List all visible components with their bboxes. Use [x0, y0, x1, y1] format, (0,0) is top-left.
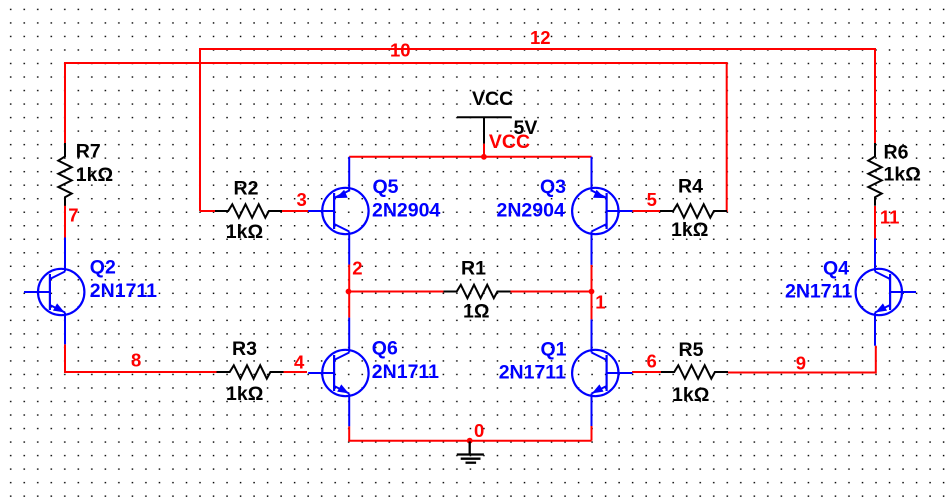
svg-text:11: 11 [880, 207, 900, 228]
svg-text:R1: R1 [461, 258, 486, 280]
svg-text:1kΩ: 1kΩ [672, 384, 709, 406]
svg-text:2N1711: 2N1711 [372, 361, 439, 383]
svg-text:Q5: Q5 [373, 176, 399, 198]
svg-text:Q1: Q1 [541, 339, 567, 361]
svg-text:R5: R5 [679, 339, 704, 361]
svg-text:R6: R6 [884, 142, 909, 164]
svg-text:Q6: Q6 [372, 338, 398, 360]
svg-text:VCC: VCC [472, 88, 513, 110]
svg-text:1kΩ: 1kΩ [884, 164, 921, 186]
svg-text:R7: R7 [76, 141, 101, 163]
svg-text:4: 4 [294, 352, 305, 373]
svg-text:R2: R2 [234, 178, 259, 200]
svg-text:0: 0 [474, 420, 484, 441]
svg-text:Q2: Q2 [90, 257, 116, 279]
svg-text:8: 8 [131, 350, 141, 371]
svg-text:10: 10 [390, 40, 411, 61]
svg-text:Q4: Q4 [823, 258, 849, 280]
svg-text:Q3: Q3 [540, 176, 566, 198]
svg-text:2N1711: 2N1711 [499, 362, 566, 384]
svg-text:2N2904: 2N2904 [497, 199, 565, 221]
svg-text:12: 12 [530, 27, 551, 48]
svg-text:R4: R4 [678, 175, 703, 197]
svg-text:5: 5 [647, 189, 657, 210]
svg-text:1kΩ: 1kΩ [226, 221, 263, 243]
svg-text:1: 1 [595, 291, 605, 312]
svg-text:9: 9 [796, 353, 806, 374]
svg-text:1kΩ: 1kΩ [671, 219, 708, 241]
svg-text:7: 7 [68, 205, 78, 226]
svg-text:2N1711: 2N1711 [785, 281, 852, 303]
svg-text:2N1711: 2N1711 [90, 280, 157, 302]
svg-text:R3: R3 [232, 338, 257, 360]
svg-text:2N2904: 2N2904 [372, 199, 440, 221]
svg-text:6: 6 [647, 351, 657, 372]
svg-text:1Ω: 1Ω [463, 301, 489, 323]
svg-text:1kΩ: 1kΩ [226, 383, 263, 405]
svg-text:2: 2 [352, 257, 362, 278]
svg-text:3: 3 [297, 189, 307, 210]
svg-text:1kΩ: 1kΩ [76, 164, 113, 186]
svg-text:VCC: VCC [489, 131, 530, 153]
